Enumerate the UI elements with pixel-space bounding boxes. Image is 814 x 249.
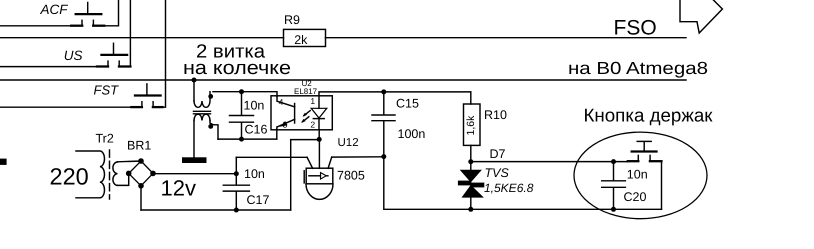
svg-text:FSO: FSO [614, 16, 657, 39]
wire button line [471, 161, 628, 163]
wire 7805 output lead [328, 157, 384, 169]
node C17 top [234, 171, 239, 176]
diode D7 TVS [458, 162, 484, 210]
svg-text:US: US [64, 48, 83, 63]
wire R9 rail right [326, 37, 687, 39]
node C15 top [381, 89, 386, 94]
svg-text:2k: 2k [294, 33, 308, 47]
wire gnd rail left [141, 209, 291, 211]
rectifier BR1 [126, 158, 156, 188]
svg-text:Tr2: Tr2 [96, 132, 114, 146]
svg-text:R9: R9 [284, 13, 300, 27]
wire opto pin2 down [318, 130, 320, 140]
wire secondary top to bridge [118, 160, 142, 163]
wire US row [0, 66, 97, 68]
wire ACF out [104, 0, 118, 26]
wire toroid bottom to opto pin3 [218, 138, 277, 140]
arrow FSO flag [680, 0, 722, 33]
svg-text:10n: 10n [244, 99, 265, 113]
transformer Tr2 [76, 150, 118, 199]
node D7 top [468, 159, 473, 164]
wire toroid to opto pin4 [213, 92, 277, 97]
light arrows [301, 111, 310, 123]
node C16 bottom [239, 137, 244, 142]
switch US [97, 43, 130, 66]
capacitor C17 [223, 174, 249, 210]
wire FST out riser [162, 0, 165, 107]
wire bridge plus to C17 [153, 173, 236, 175]
node polarity dot top [208, 94, 213, 99]
svg-text:FST: FST [94, 83, 120, 98]
svg-text:2: 2 [310, 120, 315, 130]
node 5v C15 bottom [381, 154, 386, 159]
wire 5v down right [384, 157, 662, 210]
svg-text:U12: U12 [338, 137, 359, 149]
svg-text:10n: 10n [627, 168, 648, 182]
switch ACF [71, 3, 104, 26]
svg-text:на колечке: на колечке [183, 58, 291, 79]
connector stub left edge [0, 159, 7, 165]
svg-text:12v: 12v [161, 176, 196, 201]
ellipse button circle [574, 132, 707, 219]
svg-text:1: 1 [310, 96, 315, 106]
switch button [628, 141, 662, 161]
wire US out riser [129, 0, 131, 67]
svg-text:7805: 7805 [337, 168, 365, 182]
wire FST row [0, 106, 131, 108]
wire R10 bottom [470, 145, 472, 161]
op-amp U2 optocoupler box [271, 96, 332, 130]
svg-text:220: 220 [50, 164, 89, 190]
node C20 bottom rail [611, 207, 616, 212]
wire rail riser to button [661, 161, 663, 209]
wire secondary bottom to bridge [118, 173, 129, 185]
svg-text:на B0 Atmega8: на B0 Atmega8 [568, 58, 708, 78]
wire opto pin1 to R10 [319, 92, 471, 96]
wire 7805 input lead [236, 157, 312, 168]
wire bridge minus down [140, 186, 142, 210]
node gnd junction [317, 137, 322, 142]
wire 12v riser [235, 157, 237, 173]
svg-text:C16: C16 [245, 123, 268, 137]
capacitor C16 [230, 92, 254, 139]
node C17 bottom [234, 208, 239, 213]
transformer T toroid top winding [194, 80, 210, 107]
wire R9 rail left [0, 37, 284, 39]
svg-text:D7: D7 [490, 147, 506, 161]
wire gnd branch left [291, 140, 320, 210]
capacitor C15 [372, 92, 395, 157]
resistor R9 [284, 29, 326, 46]
transistor Q photo [277, 97, 295, 130]
node polarity dot bottom [208, 124, 213, 129]
svg-text:BR1: BR1 [127, 139, 151, 153]
switch FST [131, 84, 162, 107]
svg-text:C15: C15 [396, 97, 419, 111]
svg-text:10n: 10n [244, 167, 265, 181]
svg-text:TVS: TVS [485, 166, 510, 180]
wire R10 top [470, 92, 472, 104]
ground toroid [182, 157, 207, 163]
svg-text:1,6k: 1,6k [465, 115, 477, 136]
svg-text:ACF: ACF [40, 2, 69, 17]
wire opto pin3 stub [276, 129, 278, 139]
node junction toroid top [192, 78, 197, 83]
svg-text:100n: 100n [398, 127, 426, 141]
svg-text:1,5KE6.8: 1,5KE6.8 [484, 181, 534, 195]
node C16 top [239, 89, 244, 94]
svg-text:Кнопка держак: Кнопка держак [584, 105, 714, 126]
node D7 bottom rail [468, 207, 473, 212]
transformer T toroid bottom winding [194, 114, 218, 157]
diode LED opto [311, 96, 327, 130]
wire 7805 gnd pin [318, 139, 320, 168]
svg-text:EL817: EL817 [294, 87, 318, 96]
capacitor C20 [602, 162, 626, 210]
voltage regulator U12 7805 [304, 168, 333, 199]
wire B0 rail [0, 79, 686, 81]
svg-text:C20: C20 [624, 190, 647, 204]
wire ACF row [0, 25, 71, 27]
svg-text:C17: C17 [247, 193, 270, 207]
node button left [611, 159, 616, 164]
resistor R10 [464, 104, 481, 145]
svg-text:R10: R10 [484, 108, 507, 122]
toroid core [194, 111, 211, 114]
